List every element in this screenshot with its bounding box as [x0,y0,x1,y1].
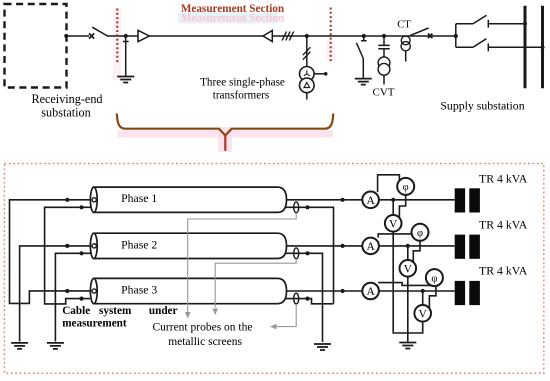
svg-text:CVT: CVT [373,87,395,99]
svg-text:V: V [404,264,413,276]
svg-text:Current probes on the: Current probes on the [153,322,253,334]
svg-text:transformers: transformers [213,90,270,102]
svg-text:φ: φ [403,182,409,193]
svg-text:measurement: measurement [62,317,127,329]
svg-text:Measurement Section: Measurement Section [181,3,285,15]
svg-text:Receiving-end: Receiving-end [31,92,102,106]
svg-text:metallic screens: metallic screens [168,336,242,348]
svg-text:Three single-phase: Three single-phase [200,77,285,89]
svg-text:TR 4 kVA: TR 4 kVA [479,171,528,185]
svg-text:under: under [149,305,178,317]
svg-text:V: V [389,219,398,231]
svg-text:CT: CT [397,20,411,31]
svg-text:substation: substation [41,106,90,120]
svg-text:A: A [366,286,375,298]
svg-text:Phase 2: Phase 2 [121,238,157,251]
svg-text:A: A [366,195,375,207]
svg-text:V: V [419,309,428,321]
svg-text:φ: φ [417,228,423,239]
svg-text:system: system [99,305,132,317]
svg-text:Phase 1: Phase 1 [121,192,157,205]
svg-text:Supply substation: Supply substation [440,99,524,113]
svg-text:TR 4 kVA: TR 4 kVA [479,217,528,231]
svg-text:φ: φ [431,273,437,284]
svg-text:A: A [366,241,375,253]
svg-text:Phase 3: Phase 3 [121,283,157,296]
svg-text:Cable: Cable [62,305,90,317]
svg-text:TR 4 kVA: TR 4 kVA [479,264,528,278]
